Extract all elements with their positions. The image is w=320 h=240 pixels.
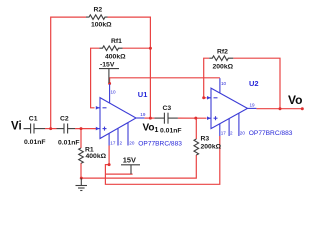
svg-text:C2: C2 [60, 115, 69, 122]
svg-text:C3: C3 [163, 105, 172, 112]
svg-text:100kΩ: 100kΩ [91, 21, 112, 28]
svg-text:OP77BRC/883: OP77BRC/883 [138, 141, 182, 148]
svg-text:R3: R3 [201, 135, 210, 142]
svg-text:Rf1: Rf1 [111, 38, 122, 45]
svg-text:-15V: -15V [100, 62, 115, 69]
svg-text:OP77BRC/883: OP77BRC/883 [249, 130, 293, 137]
svg-text:C1: C1 [29, 115, 38, 122]
svg-text:0.01nF: 0.01nF [160, 127, 182, 134]
svg-text:Vi: Vi [11, 121, 22, 133]
svg-text:10: 10 [221, 81, 227, 86]
svg-text:U2: U2 [249, 79, 259, 88]
svg-text:200kΩ: 200kΩ [213, 63, 234, 70]
svg-text:19: 19 [250, 103, 256, 108]
svg-text:10: 10 [111, 89, 117, 94]
svg-text:17: 17 [110, 140, 116, 145]
svg-text:Rf2: Rf2 [217, 49, 228, 56]
svg-text:0.01nF: 0.01nF [24, 139, 46, 146]
svg-text:400kΩ: 400kΩ [86, 153, 107, 160]
svg-text:20: 20 [240, 130, 246, 135]
svg-text:15V: 15V [123, 155, 136, 164]
svg-text:20: 20 [129, 140, 135, 145]
svg-text:U1: U1 [138, 90, 148, 99]
svg-text:2: 2 [230, 130, 233, 135]
svg-text:R2: R2 [94, 7, 103, 14]
svg-text:0.01nF: 0.01nF [58, 139, 80, 146]
svg-text:17: 17 [221, 130, 227, 135]
svg-text:19: 19 [140, 112, 146, 117]
svg-text:Vo: Vo [288, 93, 302, 107]
svg-text:2: 2 [120, 140, 123, 145]
svg-text:400kΩ: 400kΩ [105, 54, 126, 61]
svg-text:200kΩ: 200kΩ [201, 144, 222, 151]
